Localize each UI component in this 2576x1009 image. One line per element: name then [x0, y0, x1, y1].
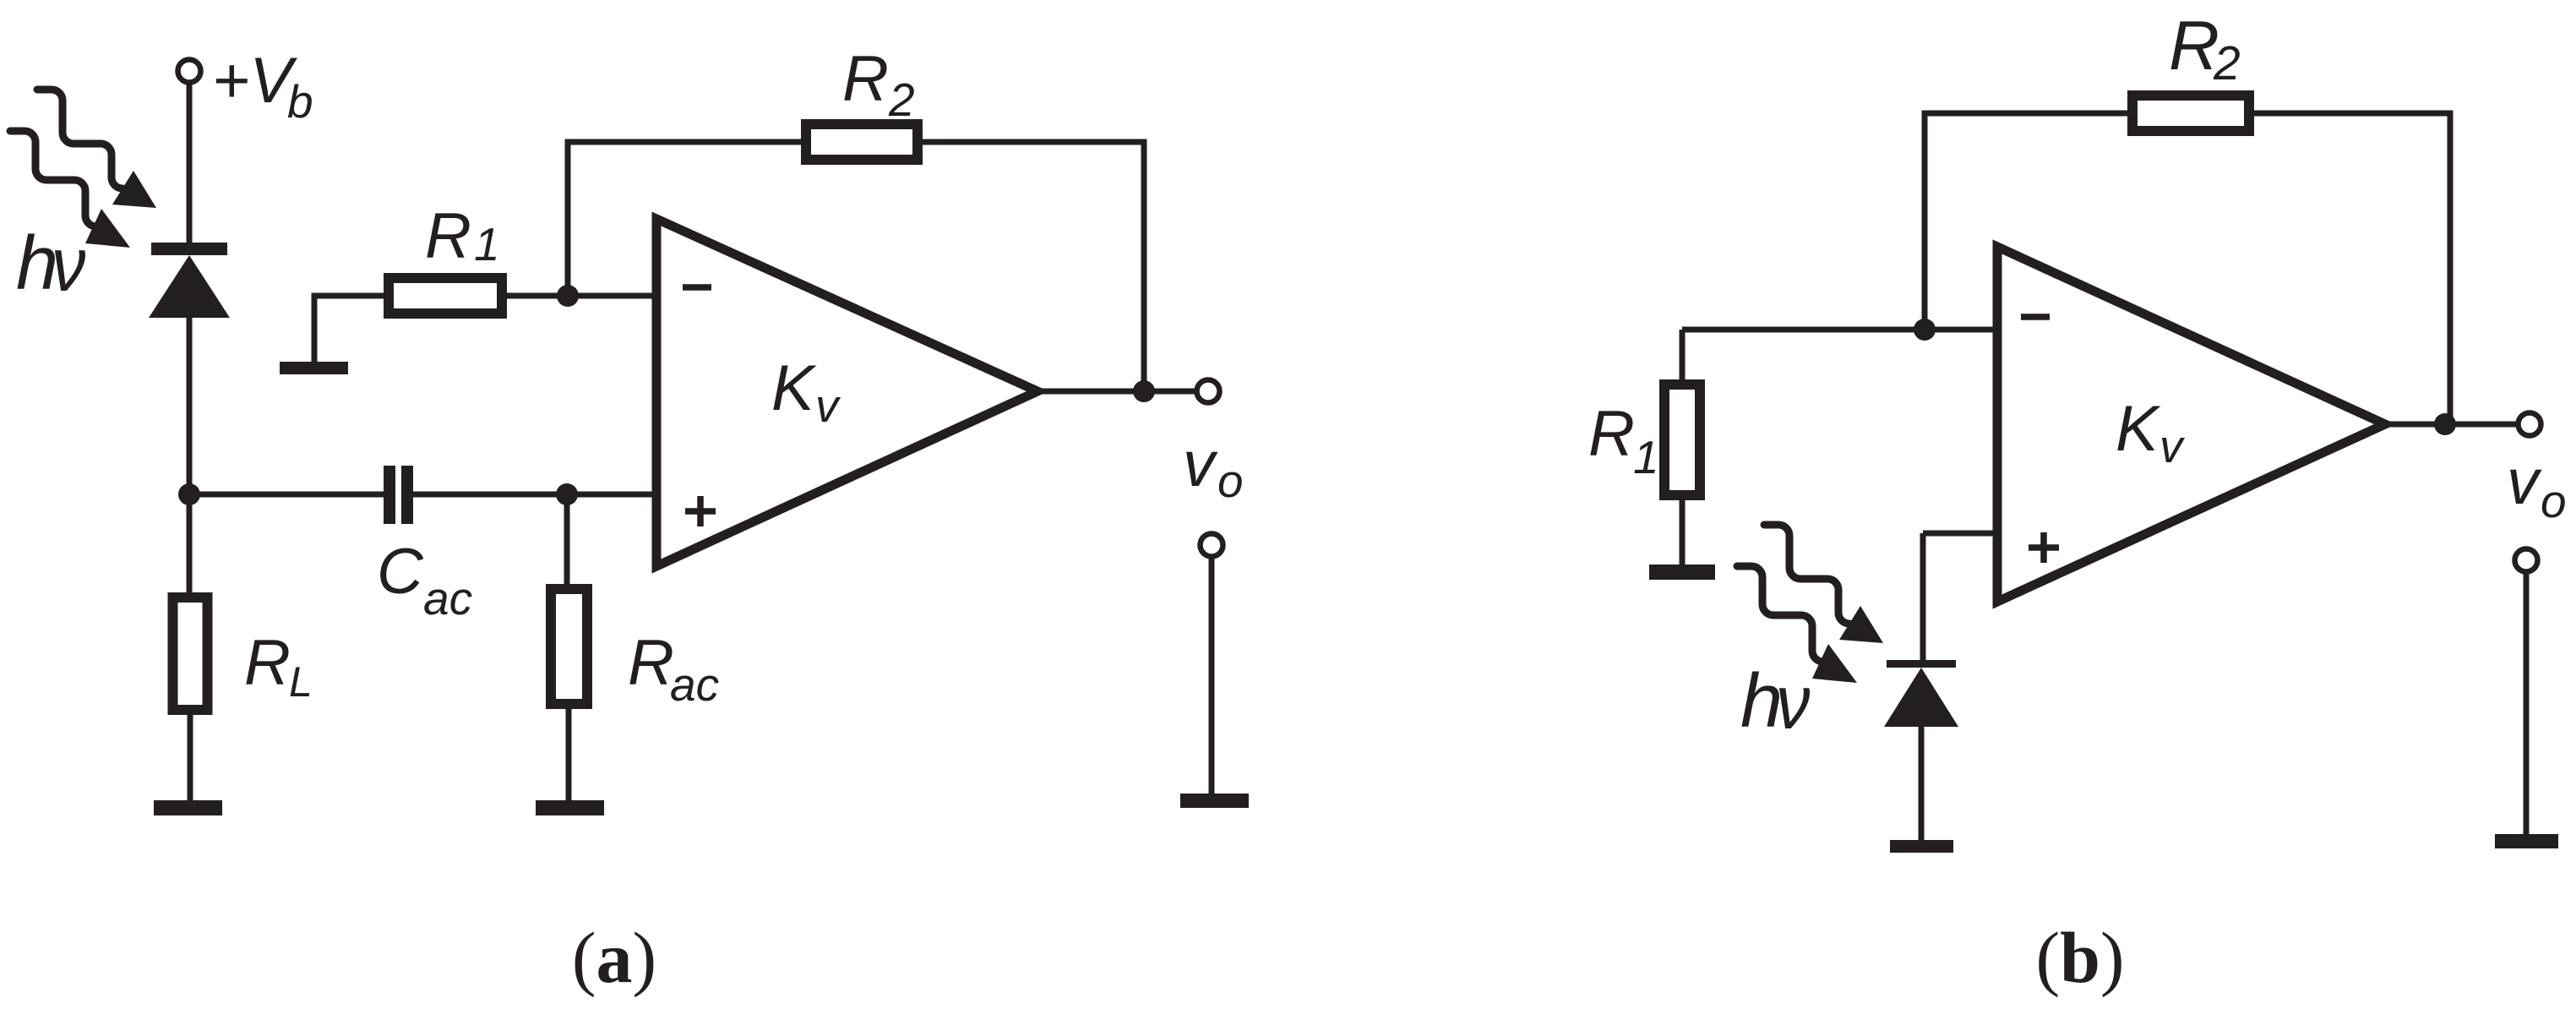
svg-text:1: 1: [1633, 431, 1659, 483]
svg-text:K: K: [771, 352, 817, 424]
svg-text:o: o: [1217, 455, 1244, 507]
svg-text:R: R: [244, 627, 291, 699]
svg-text:v: v: [1183, 428, 1218, 500]
svg-text:o: o: [2541, 475, 2567, 527]
svg-text:R: R: [1588, 398, 1635, 470]
svg-text:L: L: [289, 658, 313, 706]
svg-text:R: R: [628, 627, 674, 699]
svg-text:ac: ac: [670, 658, 719, 711]
svg-text:2: 2: [888, 74, 915, 126]
svg-text:ac: ac: [423, 572, 472, 624]
svg-text:v: v: [2159, 420, 2186, 472]
svg-text:ν: ν: [52, 222, 86, 308]
svg-text:v: v: [815, 379, 841, 432]
svg-text:(a): (a): [572, 917, 656, 998]
svg-text:R: R: [842, 43, 889, 115]
svg-text:(b): (b): [2035, 917, 2124, 998]
svg-text:1: 1: [474, 218, 500, 270]
svg-text:R: R: [425, 200, 471, 272]
svg-text:C: C: [377, 536, 424, 608]
svg-text:K: K: [2116, 393, 2161, 465]
svg-text:R: R: [2169, 6, 2219, 85]
svg-text:+V: +V: [212, 45, 297, 117]
svg-text:2: 2: [2213, 36, 2241, 90]
svg-text:b: b: [287, 75, 313, 128]
svg-text:v: v: [2507, 446, 2542, 518]
svg-text:ν: ν: [1776, 660, 1811, 745]
